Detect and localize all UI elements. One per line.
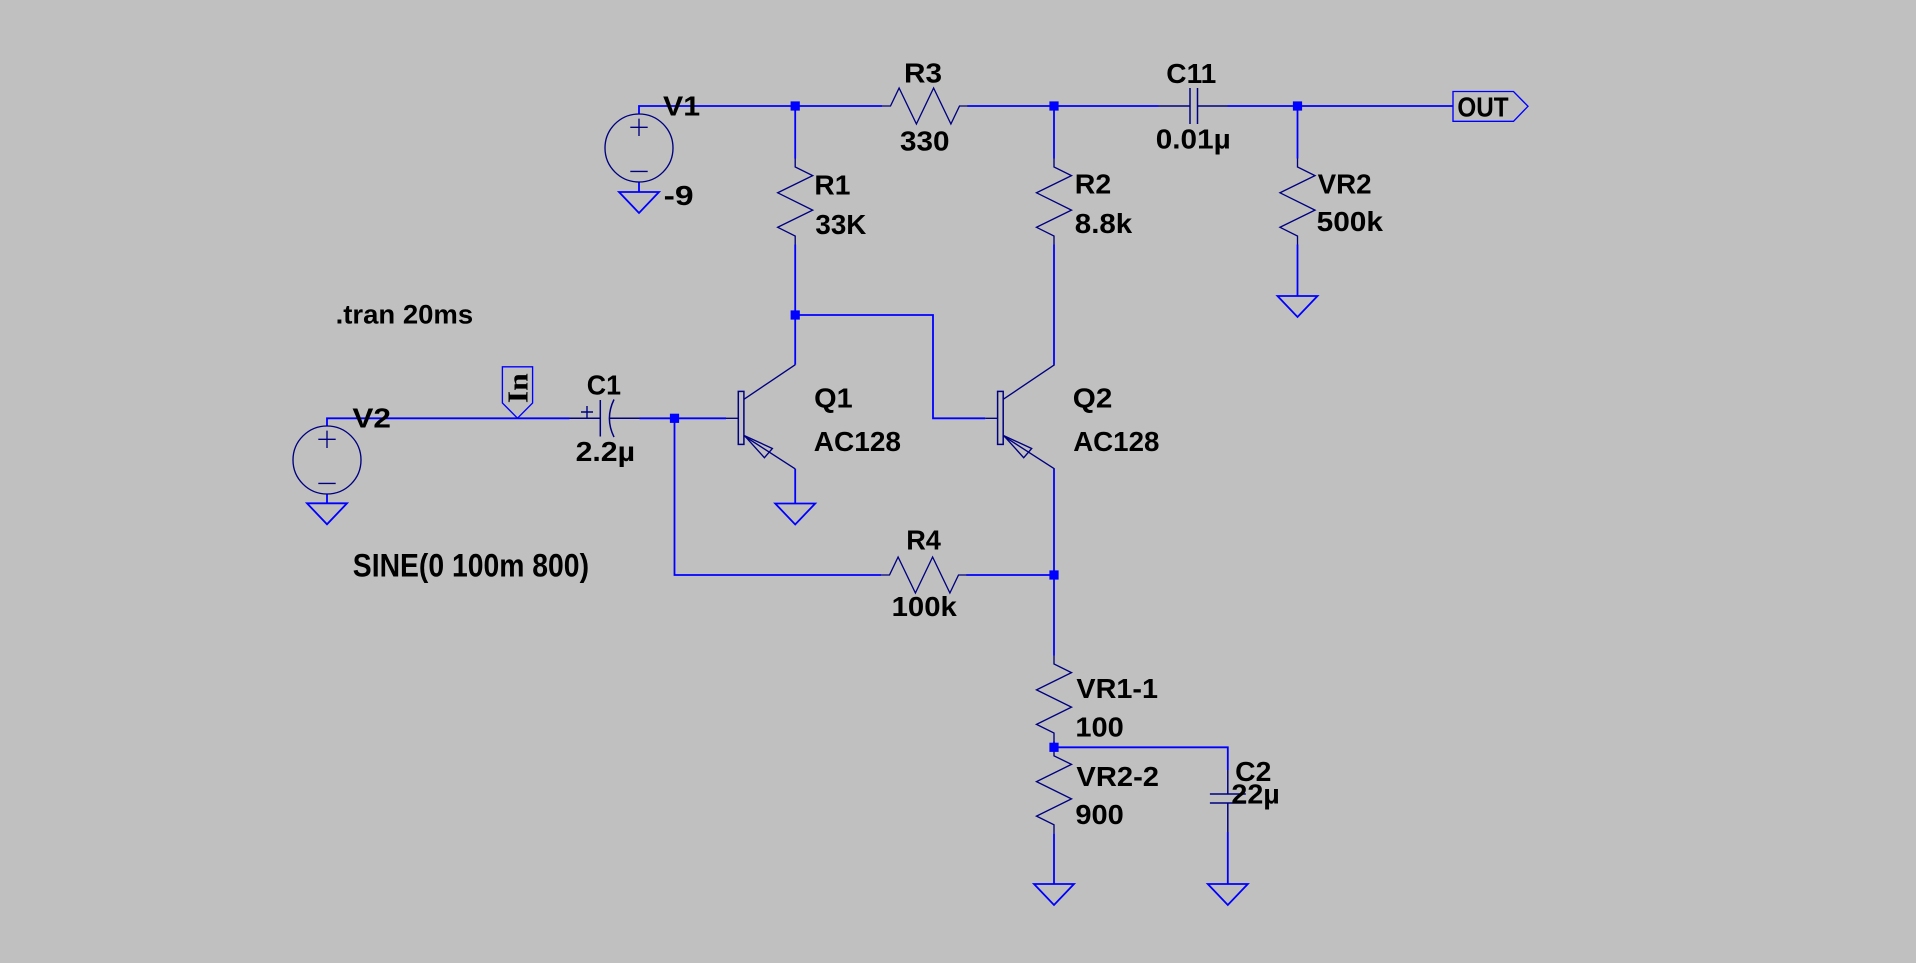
svg-text:VR1-1: VR1-1	[1076, 673, 1158, 704]
resistor VR2	[1280, 159, 1315, 245]
wire node A down to R1	[794, 106, 796, 159]
junction node F	[1049, 570, 1058, 579]
resistor R4	[881, 557, 967, 593]
wire Q2 emitter to VR1-1	[1053, 469, 1055, 656]
output port OUT	[1453, 92, 1528, 122]
wire V1 bottom to ground	[638, 182, 640, 192]
svg-text:33K: 33K	[815, 209, 866, 240]
ground below VR2	[1278, 296, 1318, 317]
svg-text:R1: R1	[814, 170, 850, 201]
net flag In	[502, 367, 532, 418]
wire node E down to R4	[675, 418, 882, 575]
voltage source V2	[293, 426, 361, 494]
wire node C down to Q1 collector	[794, 315, 796, 365]
svg-text:In: In	[504, 373, 535, 403]
resistor VR2-2	[1037, 747, 1072, 833]
junction node E	[670, 414, 679, 423]
wire node D down to VR2	[1297, 106, 1299, 159]
svg-text:Q2: Q2	[1073, 383, 1113, 414]
wire R3 to node B	[968, 105, 1159, 107]
svg-text:AC128: AC128	[1073, 426, 1159, 457]
svg-text:22µ: 22µ	[1231, 779, 1279, 810]
svg-text:0.01µ: 0.01µ	[1156, 123, 1231, 154]
svg-text:900: 900	[1075, 799, 1123, 830]
svg-text:VR2-2: VR2-2	[1076, 761, 1159, 792]
svg-text:.tran 20ms: .tran 20ms	[336, 300, 474, 330]
wire C11 to OUT	[1228, 105, 1454, 107]
wire V1 top to node A	[639, 106, 795, 114]
ground below V2	[307, 503, 347, 524]
transistor Q2 (PNP AC128)	[985, 365, 1054, 469]
resistor R2	[1037, 159, 1072, 245]
wire node A to R3	[795, 105, 882, 107]
junction node D	[1293, 101, 1302, 110]
transistor Q1 (PNP AC128)	[726, 365, 795, 469]
wire node B down to R2	[1053, 106, 1055, 159]
capacitor C1 (polarized)	[570, 400, 640, 438]
svg-text:2.2µ: 2.2µ	[576, 436, 635, 467]
resistor R3	[882, 88, 968, 124]
svg-text:330: 330	[900, 126, 950, 157]
wire C1 to Q1 base	[640, 417, 727, 419]
svg-text:VR2: VR2	[1318, 168, 1372, 199]
junction node B	[1049, 101, 1058, 110]
ground below C2	[1208, 884, 1248, 905]
svg-text:V1: V1	[663, 90, 700, 121]
ground below Q1 emitter	[775, 504, 815, 525]
wire C2 to ground	[1227, 832, 1229, 884]
wire VR2 to ground	[1297, 245, 1299, 297]
wire node C to Q2 base	[795, 315, 985, 418]
wire node G to C2	[1054, 747, 1228, 770]
svg-text:OUT: OUT	[1457, 91, 1508, 122]
svg-text:AC128: AC128	[814, 426, 901, 457]
svg-text:C1: C1	[587, 369, 621, 400]
svg-text:V2: V2	[352, 403, 391, 434]
ground below V1	[619, 192, 659, 213]
wire R1 to node C	[794, 245, 796, 316]
svg-text:C11: C11	[1166, 58, 1216, 89]
svg-text:100: 100	[1075, 712, 1123, 743]
wire VR1-1 to node G	[1053, 742, 1055, 748]
svg-text:R3: R3	[904, 58, 942, 89]
wire R2 to Q2 collector	[1053, 245, 1055, 365]
resistor VR1-1	[1037, 656, 1072, 742]
svg-text:R4: R4	[906, 524, 941, 555]
capacitor C11	[1159, 88, 1228, 124]
wire VR2-2 to ground	[1053, 833, 1055, 884]
junction node A	[791, 101, 800, 110]
junction node C	[791, 310, 800, 319]
wire V2 bottom to ground	[326, 494, 328, 503]
voltage source V1	[605, 114, 673, 182]
svg-text:-9: -9	[664, 180, 694, 211]
ground below VR2-2	[1034, 884, 1074, 905]
wire V2 top to C1	[327, 418, 570, 426]
junction node G	[1049, 743, 1058, 752]
svg-text:8.8k: 8.8k	[1075, 208, 1133, 239]
wire R4 to node F	[967, 574, 1055, 576]
capacitor C2	[1210, 770, 1246, 832]
svg-text:500k: 500k	[1317, 206, 1384, 237]
resistor R1	[778, 159, 813, 245]
wire Q1 emitter to ground	[794, 469, 796, 504]
svg-text:Q1: Q1	[814, 383, 853, 414]
svg-text:SINE(0 100m 800): SINE(0 100m 800)	[353, 548, 589, 584]
svg-text:R2: R2	[1075, 169, 1111, 200]
svg-text:100k: 100k	[892, 591, 958, 622]
